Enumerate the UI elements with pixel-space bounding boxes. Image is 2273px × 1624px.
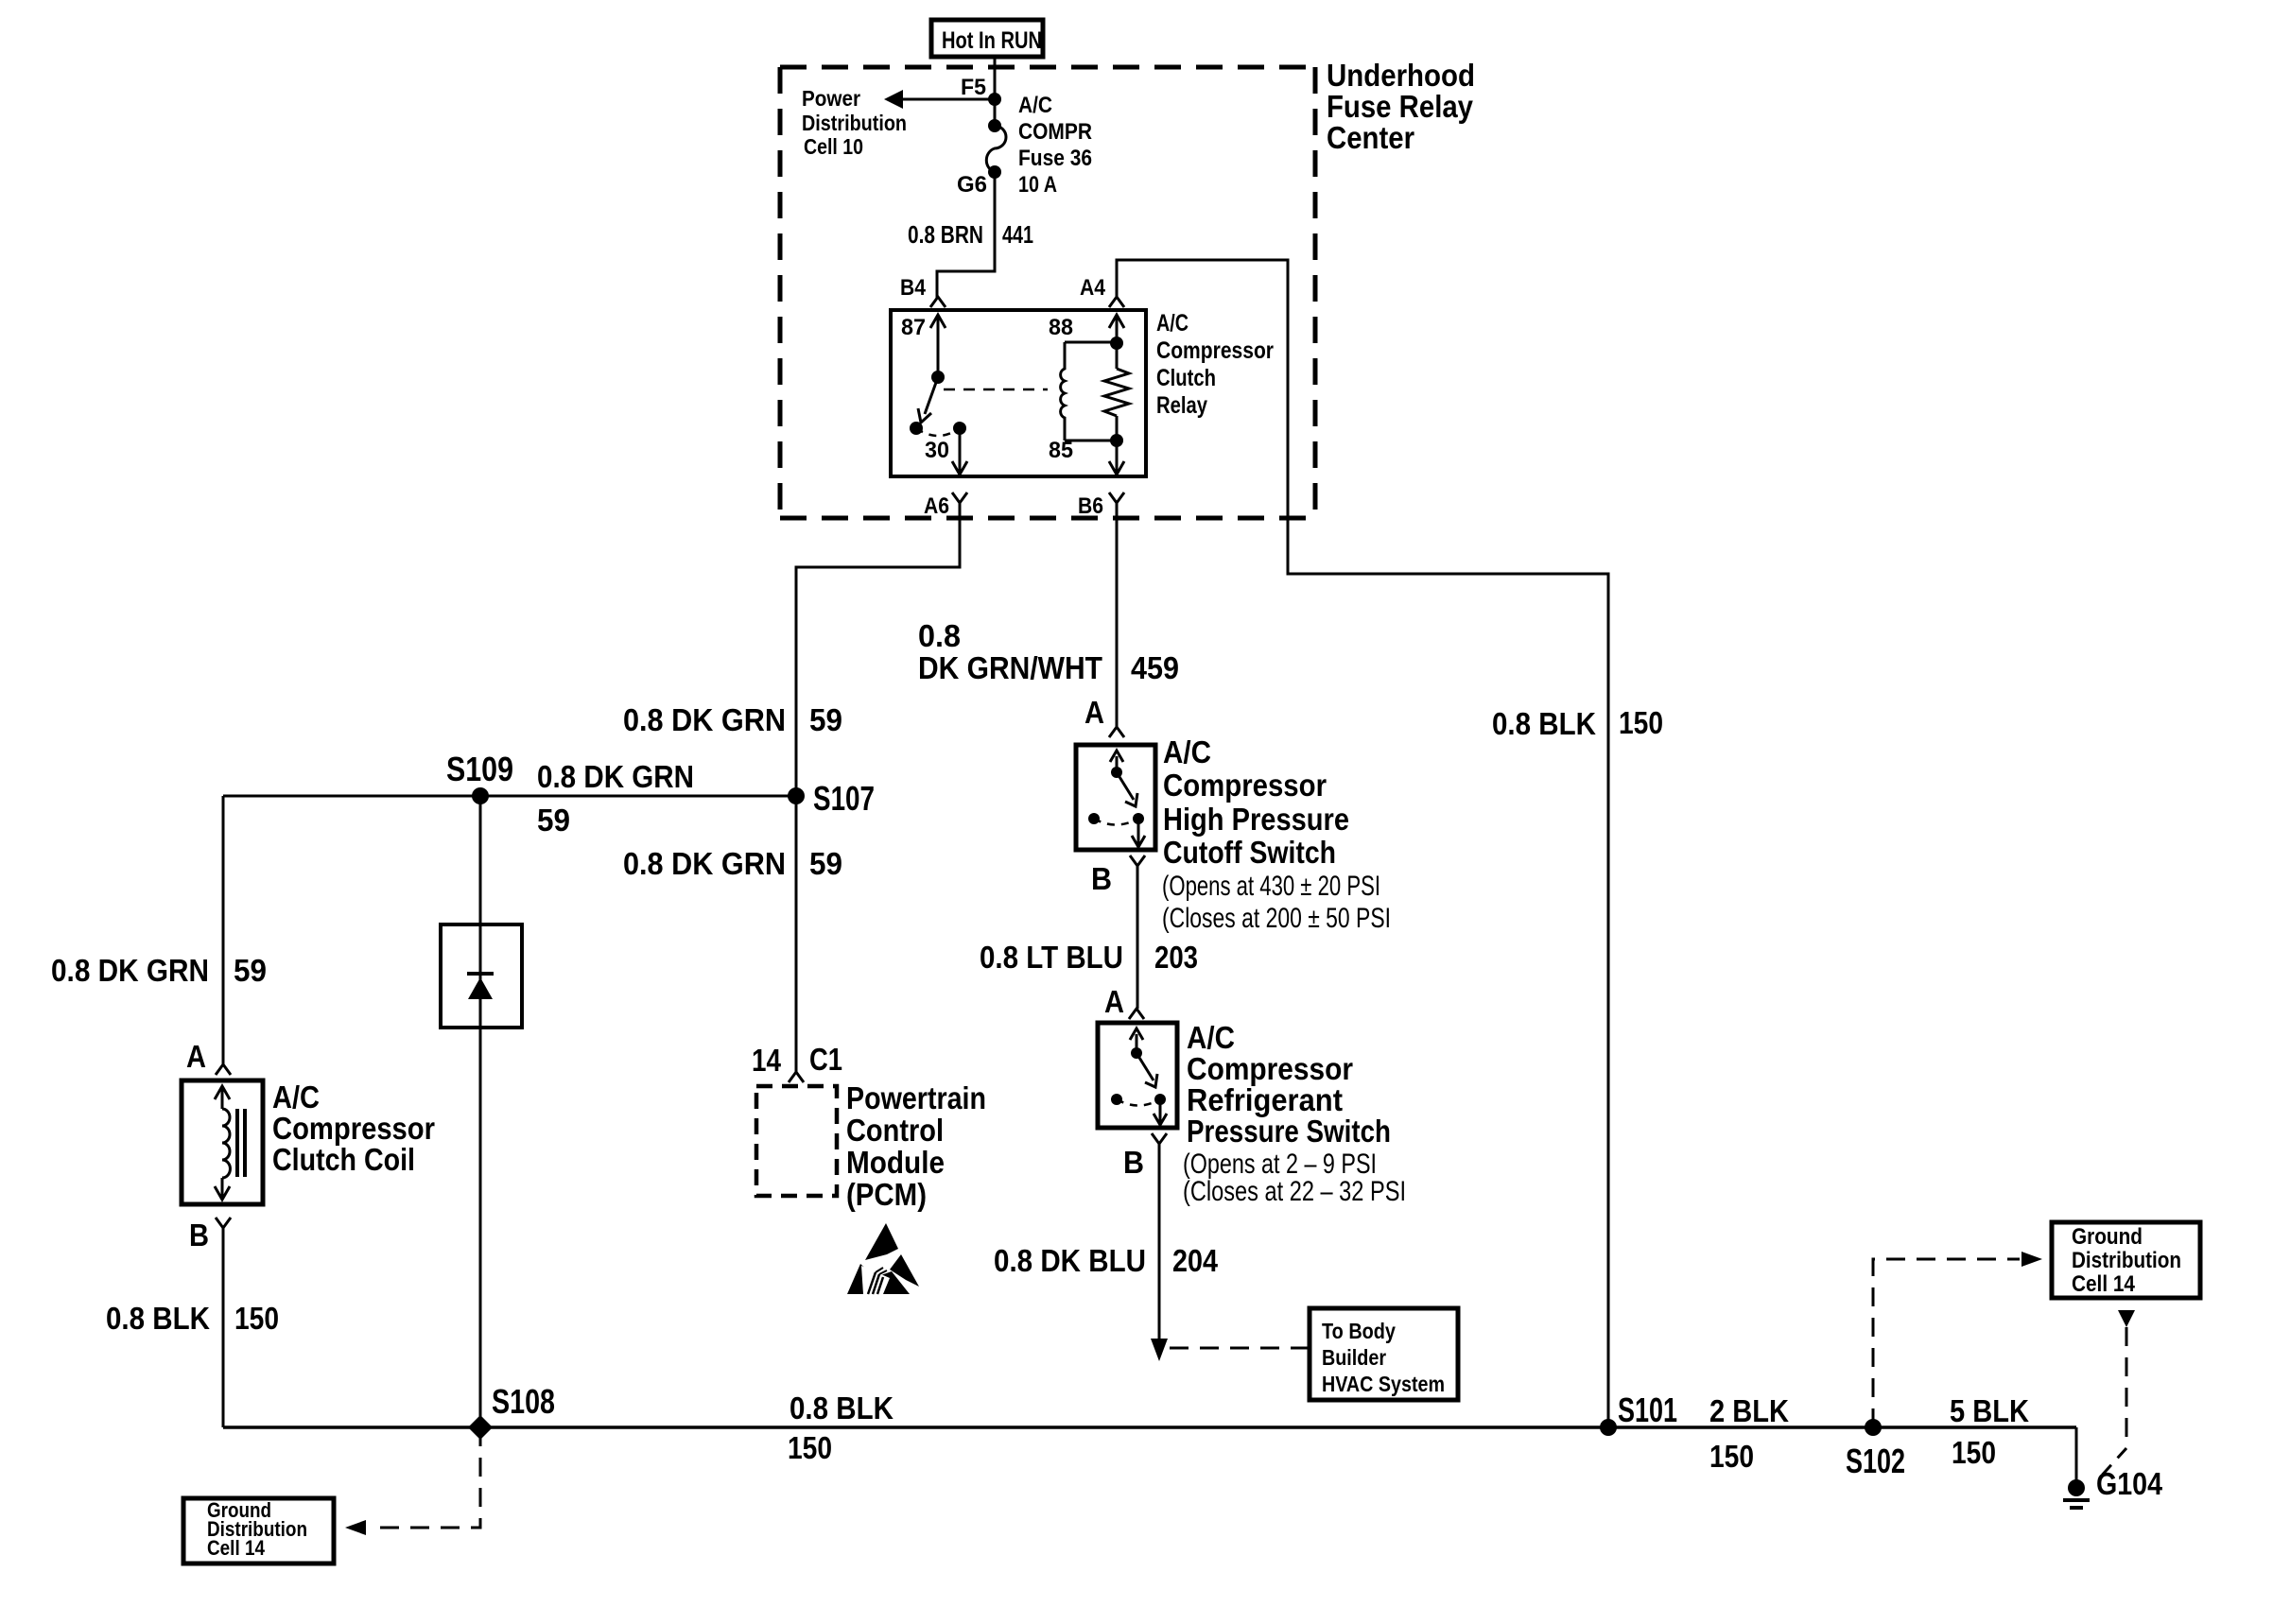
- svg-text:A/C: A/C: [1187, 1020, 1235, 1055]
- relay switch arm: [918, 377, 938, 423]
- connector pin A6: [924, 492, 967, 519]
- svg-text:Builder: Builder: [1322, 1345, 1386, 1370]
- label Powertrain Control Module (PCM): [846, 1080, 986, 1212]
- svg-text:B: B: [1091, 861, 1112, 896]
- clutch coil winding symbol: [215, 1086, 245, 1200]
- relay pin 87 terminal: [901, 315, 946, 377]
- svg-text:(Closes at 22 – 32 PSI: (Closes at 22 – 32 PSI: [1183, 1176, 1406, 1207]
- wire high pressure switch to refrigerant switch (0.8 LT BLU 203): [1136, 866, 1139, 1009]
- node S108 splice: [468, 1415, 493, 1440]
- svg-text:Fuse Relay: Fuse Relay: [1327, 89, 1474, 124]
- dashed wire ground distribution to G104: [2099, 1310, 2135, 1478]
- connector pin B (high pressure switch): [1091, 855, 1145, 896]
- diode symbol: [467, 974, 494, 999]
- svg-text:0.8 DK GRN: 0.8 DK GRN: [51, 953, 209, 988]
- relay actuation dashed link: [944, 389, 1048, 391]
- svg-text:59: 59: [234, 953, 267, 988]
- svg-text:0.8 BLK: 0.8 BLK: [789, 1391, 894, 1425]
- svg-text:85: 85: [1049, 438, 1073, 463]
- wire dashed link to HVAC box: [1170, 1347, 1310, 1350]
- connector pin A4: [1080, 275, 1124, 307]
- svg-text:Pressure Switch: Pressure Switch: [1187, 1114, 1391, 1149]
- node S109 splice: [472, 787, 489, 804]
- label A/C Compressor Clutch Coil: [272, 1080, 435, 1177]
- svg-text:B: B: [1123, 1145, 1144, 1180]
- svg-text:(PCM): (PCM): [846, 1177, 927, 1212]
- svg-text:0.8 LT BLU: 0.8 LT BLU: [980, 940, 1123, 975]
- svg-text:A: A: [1084, 695, 1104, 730]
- A/C compressor high pressure cutoff switch box: [1076, 745, 1155, 850]
- wire A4 feed from right branch: [1117, 260, 1608, 1427]
- svg-text:203: 203: [1154, 940, 1198, 975]
- svg-text:59: 59: [809, 702, 842, 737]
- svg-text:0.8 DK GRN: 0.8 DK GRN: [623, 702, 786, 737]
- svg-text:150: 150: [234, 1301, 279, 1336]
- svg-text:Powertrain: Powertrain: [846, 1080, 986, 1115]
- svg-text:59: 59: [537, 803, 570, 838]
- svg-text:150: 150: [1709, 1439, 1754, 1474]
- connector pin A (high pressure switch): [1084, 695, 1124, 737]
- svg-text:B4: B4: [900, 275, 927, 301]
- svg-text:A/C: A/C: [272, 1080, 320, 1114]
- svg-text:DK GRN/WHT: DK GRN/WHT: [918, 650, 1102, 685]
- svg-text:S102: S102: [1846, 1442, 1905, 1480]
- dashed wire S108 to ground distribution: [345, 1427, 480, 1535]
- svg-text:HVAC System: HVAC System: [1322, 1372, 1445, 1396]
- node Ground Distribution Cell 14 box (right): [2052, 1222, 2200, 1298]
- svg-text:Refrigerant: Refrigerant: [1187, 1082, 1343, 1117]
- svg-text:Fuse 36: Fuse 36: [1018, 146, 1092, 171]
- A/C compressor refrigerant pressure switch box: [1098, 1023, 1177, 1128]
- connector pin B4: [900, 275, 946, 307]
- wire Hot In RUN to fuse F5: [994, 57, 997, 126]
- fuse F36 A/C COMPR Fuse 36 10A: [986, 119, 1006, 179]
- svg-text:B6: B6: [1078, 493, 1103, 519]
- svg-text:0.8 DK GRN: 0.8 DK GRN: [623, 846, 786, 881]
- svg-text:59: 59: [809, 846, 842, 881]
- svg-text:A4: A4: [1080, 275, 1106, 301]
- wire refrigerant switch to body builder HVAC (0.8 DK BLU 204): [1151, 1144, 1168, 1361]
- Underhood Fuse Relay Center dashed box: [780, 67, 1315, 518]
- wire clutch coil B to ground bus (0.8 BLK 150): [222, 1228, 225, 1427]
- wire fuse to relay pin B4 (0.8 BRN 441): [937, 172, 995, 298]
- svg-text:Clutch: Clutch: [1156, 365, 1216, 391]
- label A/C COMPR Fuse 36 10 A: [1018, 93, 1092, 198]
- svg-text:S109: S109: [446, 750, 513, 788]
- node Hot In RUN power feed box: [931, 20, 1043, 57]
- svg-text:150: 150: [1619, 705, 1663, 740]
- wire ground bus 0.8 BLK 150: [223, 1425, 2076, 1429]
- svg-text:S101: S101: [1618, 1391, 1677, 1429]
- ESD static sensitive symbol: [847, 1223, 919, 1294]
- svg-text:14: 14: [752, 1043, 782, 1078]
- relay pin 30 terminal: [925, 428, 967, 475]
- relay switch common node: [931, 371, 945, 384]
- node F5 junction: [988, 93, 1001, 106]
- node S107 splice: [788, 787, 805, 804]
- svg-text:30: 30: [925, 438, 949, 463]
- node To Body Builder HVAC System box: [1310, 1308, 1458, 1400]
- svg-text:COMPR: COMPR: [1018, 119, 1092, 145]
- svg-text:0.8 BLK: 0.8 BLK: [1492, 706, 1596, 741]
- node S102 splice: [1865, 1419, 1882, 1436]
- svg-text:10 A: 10 A: [1018, 172, 1057, 198]
- wire B6 to high pressure switch (0.8 DK GRN/WHT 459): [1116, 503, 1119, 727]
- svg-text:Clutch Coil: Clutch Coil: [272, 1142, 415, 1177]
- high pressure switch contacts: [1088, 751, 1145, 847]
- wire A6 to S107 (0.8 DK GRN 59): [796, 503, 960, 1072]
- svg-text:A6: A6: [924, 493, 949, 519]
- connector pin A (refrigerant pressure switch): [1104, 984, 1144, 1019]
- svg-text:A/C: A/C: [1018, 93, 1052, 118]
- node relay coil bottom junction: [1110, 434, 1123, 447]
- svg-text:A: A: [186, 1039, 206, 1074]
- svg-text:Underhood: Underhood: [1327, 58, 1475, 93]
- relay pin 88 terminal with resistor: [1049, 315, 1129, 441]
- relay contact dots: [910, 422, 966, 436]
- svg-text:B: B: [189, 1218, 209, 1253]
- svg-text:Compressor: Compressor: [1163, 768, 1327, 803]
- svg-text:Cutoff Switch: Cutoff Switch: [1163, 835, 1336, 870]
- svg-text:459: 459: [1131, 650, 1179, 685]
- wire left branch down to clutch coil (0.8 DK GRN 59): [222, 796, 225, 1064]
- svg-text:Module: Module: [846, 1145, 945, 1180]
- svg-text:88: 88: [1049, 315, 1073, 340]
- svg-text:Power: Power: [802, 86, 860, 111]
- svg-text:204: 204: [1172, 1243, 1219, 1278]
- clutch coil box: [182, 1080, 263, 1204]
- svg-text:F5: F5: [961, 75, 986, 100]
- svg-text:(Closes at 200 ± 50 PSI: (Closes at 200 ± 50 PSI: [1162, 903, 1391, 934]
- svg-text:To Body: To Body: [1322, 1319, 1396, 1343]
- wire arrow to Power Distribution Cell 10: [884, 90, 995, 109]
- svg-text:5 BLK: 5 BLK: [1950, 1393, 2029, 1428]
- svg-text:S107: S107: [813, 779, 875, 818]
- relay box A/C Compressor Clutch Relay: [891, 310, 1146, 476]
- svg-text:2 BLK: 2 BLK: [1709, 1393, 1789, 1428]
- node Ground Distribution Cell 14 box (left): [183, 1498, 334, 1564]
- wire bus to G104 ground: [2075, 1427, 2078, 1488]
- svg-text:0.8 DK GRN: 0.8 DK GRN: [537, 759, 694, 794]
- svg-text:A: A: [1104, 984, 1124, 1019]
- svg-text:Relay: Relay: [1156, 392, 1207, 419]
- connector pin C1: [789, 1042, 842, 1082]
- refrigerant pressure switch contacts: [1111, 1028, 1167, 1125]
- svg-text:Compressor: Compressor: [1156, 337, 1274, 364]
- label A/C Compressor Refrigerant Pressure Switch: [1187, 1020, 1391, 1149]
- node relay coil top junction: [1110, 337, 1123, 350]
- relay coil: [1061, 342, 1117, 441]
- svg-text:150: 150: [1952, 1435, 1996, 1470]
- svg-text:441: 441: [1002, 220, 1033, 249]
- wire S109 down through diode to S108: [479, 796, 482, 1427]
- svg-text:Compressor: Compressor: [1187, 1051, 1353, 1086]
- svg-text:0.8 DK BLU: 0.8 DK BLU: [994, 1243, 1146, 1278]
- node S101 splice: [1600, 1419, 1617, 1436]
- svg-text:A/C: A/C: [1163, 734, 1211, 769]
- connector pin B6: [1078, 492, 1124, 519]
- label Underhood Fuse Relay Center: [1327, 58, 1475, 155]
- svg-text:High Pressure: High Pressure: [1163, 802, 1349, 837]
- svg-text:Compressor: Compressor: [272, 1111, 435, 1146]
- connector pin B (refrigerant pressure switch): [1123, 1133, 1167, 1180]
- svg-text:87: 87: [901, 315, 926, 340]
- svg-text:A/C: A/C: [1156, 310, 1189, 337]
- svg-text:Distribution: Distribution: [2072, 1248, 2181, 1273]
- svg-text:S108: S108: [492, 1382, 555, 1421]
- dashed wire S102 to ground distribution: [1873, 1252, 2042, 1427]
- svg-text:Ground: Ground: [2072, 1224, 2143, 1250]
- svg-text:C1: C1: [809, 1042, 842, 1077]
- svg-text:Center: Center: [1327, 120, 1414, 155]
- svg-text:Hot In RUN: Hot In RUN: [942, 27, 1042, 54]
- svg-text:Control: Control: [846, 1113, 944, 1148]
- svg-text:(Opens at 430 ± 20 PSI: (Opens at 430 ± 20 PSI: [1162, 871, 1380, 902]
- PCM dashed box: [756, 1086, 837, 1196]
- svg-text:Cell 14: Cell 14: [207, 1536, 266, 1560]
- svg-text:Cell 10: Cell 10: [804, 134, 863, 159]
- label Power Distribution Cell 10: [802, 86, 907, 159]
- label A/C Compressor Clutch Relay: [1156, 310, 1274, 419]
- svg-text:Distribution: Distribution: [802, 111, 907, 135]
- svg-text:0.8 BRN: 0.8 BRN: [908, 220, 983, 249]
- svg-text:G6: G6: [957, 172, 987, 198]
- wire S109 to S107 horizontal (0.8 DK GRN 59): [223, 795, 796, 798]
- relay pin 85 terminal: [1049, 438, 1124, 475]
- ground G104 symbol: [2063, 1479, 2090, 1508]
- connector pin B (clutch coil): [189, 1218, 231, 1253]
- label A/C Compressor High Pressure Cutoff Switch: [1163, 734, 1349, 870]
- svg-text:0.8: 0.8: [918, 618, 961, 653]
- svg-text:0.8 BLK: 0.8 BLK: [106, 1301, 210, 1336]
- connector pin A (clutch coil): [186, 1039, 231, 1075]
- diode box: [441, 924, 522, 1028]
- svg-text:Cell 14: Cell 14: [2072, 1271, 2136, 1297]
- svg-text:150: 150: [788, 1430, 832, 1465]
